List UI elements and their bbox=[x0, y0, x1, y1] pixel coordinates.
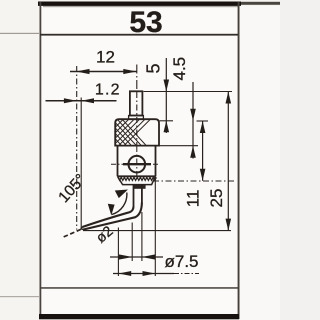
svg-text:11: 11 bbox=[184, 190, 203, 208]
flange shadow bbox=[134, 185, 146, 189]
threaded stem M2.5 bbox=[130, 91, 143, 115]
dim 12 arrows bbox=[76, 69, 136, 74]
dim 5 arrows bbox=[164, 80, 170, 133]
dia7.5 dashdot tail bbox=[174, 273, 199, 275]
dim dia7.5 arrows bbox=[118, 271, 155, 276]
svg-text:ø7.5: ø7.5 bbox=[165, 252, 199, 271]
dim 11 line bbox=[202, 121, 204, 181]
left margin gray line 2 bbox=[0, 296, 39, 297]
clamp screw circle bbox=[129, 156, 146, 173]
svg-text:1.2: 1.2 bbox=[95, 82, 121, 99]
dim 11 arrows bbox=[200, 121, 206, 181]
top black bar bbox=[38, 2, 241, 6]
centerline stem axis bbox=[136, 65, 138, 93]
E3 knurl bottom extension bbox=[156, 145, 198, 147]
svg-text:5: 5 bbox=[144, 63, 164, 73]
dim 4.5 line bbox=[192, 82, 194, 159]
dim dia2 line bbox=[110, 256, 163, 258]
left border bbox=[40, 2, 42, 319]
lever shank bbox=[134, 185, 142, 207]
ext line body left bbox=[117, 228, 119, 277]
svg-text:53: 53 bbox=[129, 6, 162, 39]
flange cone bbox=[118, 176, 156, 184]
ext line body right bbox=[154, 177, 156, 276]
dim 5 line bbox=[165, 58, 167, 133]
knurled ring bbox=[115, 119, 159, 145]
dim 1.2 line bbox=[46, 100, 117, 102]
bottom black bar bbox=[39, 314, 239, 319]
right border bbox=[238, 2, 240, 319]
header separator bbox=[40, 34, 238, 36]
arc arrow lower bbox=[108, 204, 115, 216]
body cylinder bbox=[118, 146, 156, 177]
tip dashed point bbox=[63, 229, 81, 237]
hole centerline horizontal bbox=[111, 163, 159, 165]
E4 flange face dashdot bbox=[153, 180, 236, 182]
E5 tip extension bbox=[83, 230, 231, 232]
bottom separator bbox=[40, 287, 238, 289]
flange serration bbox=[118, 177, 156, 180]
dim 25 line bbox=[227, 92, 229, 231]
E1 stem top extension bbox=[144, 91, 233, 93]
wire tip edge line L2 bbox=[80, 98, 82, 230]
left margin gray line bbox=[0, 33, 39, 34]
arc arrow upper bbox=[115, 190, 128, 199]
dim 25 arrows bbox=[226, 92, 232, 231]
svg-text:25: 25 bbox=[207, 189, 226, 208]
wire tip centerline L1 bbox=[76, 66, 78, 230]
lever tip bbox=[81, 227, 83, 230]
svg-text:12: 12 bbox=[96, 47, 115, 66]
lever bend and arm bbox=[82, 203, 142, 230]
dim dia7.5 line bbox=[113, 273, 174, 275]
dim dia2 arrows bbox=[119, 254, 156, 259]
dim 4.5 arrows bbox=[190, 109, 196, 158]
ext line shank left bbox=[131, 223, 133, 262]
dim 1.2 arrows bbox=[64, 98, 94, 103]
angle arc 105 bbox=[112, 193, 127, 215]
E2 knurl top extension bbox=[160, 120, 174, 122]
svg-text:4.5: 4.5 bbox=[170, 57, 189, 81]
dim 12 line bbox=[70, 71, 137, 73]
ext line shank right bbox=[141, 212, 143, 261]
body vertical centerline bbox=[136, 146, 138, 176]
screw slot bbox=[123, 163, 151, 165]
stem base flare bbox=[129, 116, 144, 120]
